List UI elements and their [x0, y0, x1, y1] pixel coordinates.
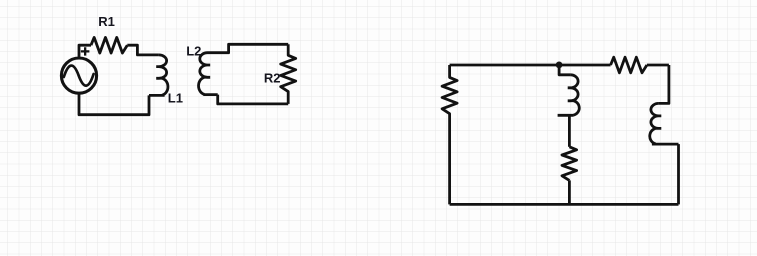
wire R1 to L1	[127, 45, 159, 55]
inductor middle (circuit3)	[568, 75, 580, 115]
ac source plus polarity mark	[81, 47, 90, 55]
wire right side down	[659, 65, 669, 103]
wire L1 bottom to source	[79, 95, 149, 115]
svg-text:R1: R1	[98, 14, 115, 29]
resistor middle (circuit3)	[562, 147, 577, 181]
wire right inductor to bottom rail	[677, 144, 680, 204]
resistor top (circuit3)	[611, 57, 647, 73]
wire middle resistor to bottom rail	[568, 180, 571, 204]
wire junction to middle inductor	[559, 65, 570, 75]
inductor L1	[149, 55, 168, 96]
wire circuit3 bottom rail	[450, 203, 679, 206]
inductor right bottom lead bar	[652, 143, 679, 146]
resistor left (circuit3)	[442, 65, 457, 204]
wire from source top to R1	[79, 45, 91, 57]
wire circuit2 top	[208, 44, 289, 52]
inductor middle bottom lead bar	[558, 114, 574, 117]
svg-text:L1: L1	[168, 91, 183, 106]
wire L2 bottom	[218, 95, 289, 104]
svg-text:R2: R2	[264, 70, 281, 85]
wire circuit3 top rail left	[450, 64, 611, 67]
ac source V1 circle	[61, 58, 96, 93]
svg-text:L2: L2	[186, 44, 201, 59]
wire circuit3 top rail right	[647, 64, 669, 67]
inductor L2	[199, 53, 218, 95]
wire middle inductor to middle resistor	[568, 115, 571, 147]
resistor R1	[91, 37, 127, 53]
inductor right (circuit3)	[650, 103, 662, 143]
resistor R2	[281, 44, 296, 104]
junction dot node A	[556, 62, 563, 69]
ac source sine wave	[64, 66, 94, 86]
